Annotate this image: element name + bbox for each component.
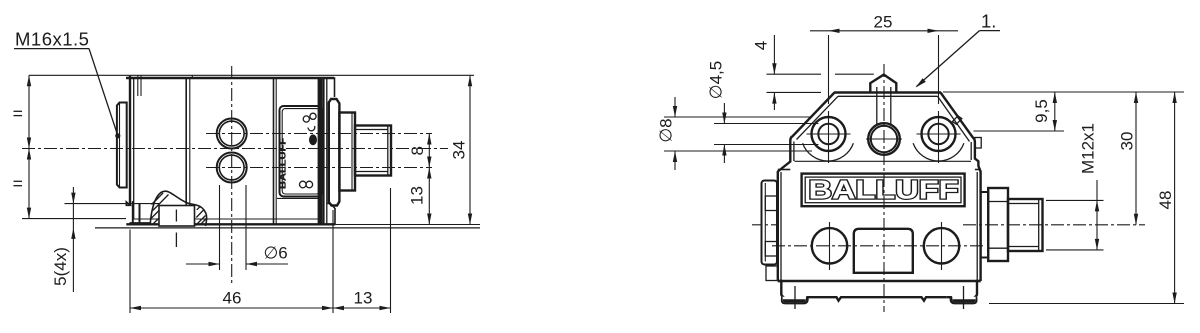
svg-text:M16x1.5: M16x1.5 <box>15 29 89 50</box>
lower-right circle crosshair vertical <box>941 222 943 270</box>
25 dimension line <box>810 30 958 32</box>
top-left circle hole <box>818 124 838 144</box>
svg-text:BALLUFF: BALLUFF <box>277 138 287 189</box>
top-left corner step lines <box>137 75 139 96</box>
lower circles center line <box>772 245 986 247</box>
lower-right mounting circle <box>924 228 959 263</box>
svg-text:∅8: ∅8 <box>657 118 676 142</box>
13 dimension line right <box>428 168 430 225</box>
house right wall inner <box>970 142 972 160</box>
roof inner chamfer left <box>797 96 839 139</box>
equal mark lower <box>14 180 23 182</box>
internal seam 1 <box>185 79 187 224</box>
LED twin circles bottom <box>300 181 307 188</box>
1. leader arrow <box>916 78 926 87</box>
flange plate <box>329 99 340 206</box>
4 reference lines <box>767 73 822 75</box>
top-right extension line <box>943 91 1184 93</box>
bottom right cap <box>327 204 335 225</box>
25 extension lines <box>828 35 830 104</box>
foot slot center dash <box>175 210 177 222</box>
svg-text:∅4,5: ∅4,5 <box>707 61 726 99</box>
step line right <box>975 169 981 171</box>
body right edge <box>979 171 981 281</box>
label box inner <box>282 109 319 194</box>
5(4x) dimension line <box>72 187 74 292</box>
diameter 8 dimension line <box>674 97 676 117</box>
M16 leader <box>89 49 118 135</box>
9,5 dimension line <box>1054 92 1056 131</box>
lower-left circle crosshair vertical <box>829 222 831 270</box>
potentiometer filled oval <box>309 134 317 145</box>
nub slot lines <box>876 87 878 124</box>
top right cap <box>327 78 335 97</box>
main horizontal center line <box>22 148 448 150</box>
body right edge double <box>322 78 324 224</box>
LED twin circles top <box>303 116 309 122</box>
13 arrows bottom <box>333 306 344 310</box>
1. underline <box>980 30 1001 32</box>
left flange plate <box>762 181 778 265</box>
bottom-left extension line <box>22 218 126 220</box>
arc around top-right circle <box>913 143 964 161</box>
label box bottom double line <box>277 197 322 199</box>
center notch <box>854 229 913 273</box>
equal mark upper <box>14 110 23 112</box>
body bottom inner line <box>134 218 319 220</box>
house right wall <box>973 138 980 172</box>
foot white slot <box>159 206 195 227</box>
base bottom middle <box>812 297 947 301</box>
svg-text:8: 8 <box>408 146 427 155</box>
house left wall inner <box>793 142 795 162</box>
top-left circle (counterbore) <box>812 117 846 151</box>
M16 underline <box>14 48 89 50</box>
hole circle upper <box>217 119 247 149</box>
diameter 4,5 reference lines <box>714 123 819 125</box>
plate front face line <box>119 103 121 188</box>
svg-text:9,5: 9,5 <box>1032 99 1051 123</box>
top-right circle hole <box>928 124 948 144</box>
plug barrel <box>1008 199 1043 251</box>
upper hole center line <box>206 133 432 135</box>
plug center line left tick <box>752 224 776 226</box>
roof inner chamfer right <box>938 96 970 141</box>
plug barrel end lines <box>1008 203 1039 205</box>
diameter 8 reference lines <box>664 116 812 118</box>
internal shelf line <box>795 160 972 162</box>
hatch lines left crescent <box>151 211 159 219</box>
8 dimension line <box>428 134 430 168</box>
lower-left mounting circle <box>812 228 847 263</box>
diameter 6 dimension line <box>186 263 220 265</box>
svg-text:1.: 1. <box>981 11 996 32</box>
body bottom edge <box>126 223 335 225</box>
body left edge <box>129 76 131 206</box>
left foot chamfer <box>126 202 130 206</box>
hatch dome outline <box>150 191 206 226</box>
hex nut side view <box>339 113 355 191</box>
lower hole center line <box>206 167 432 169</box>
plug end face lines <box>355 129 388 131</box>
plug hex <box>988 188 1008 261</box>
M16 leader dot <box>115 133 120 138</box>
left foot bottom pad <box>130 222 151 224</box>
bottom extension line <box>989 303 1184 305</box>
9,5 reference line <box>974 130 1065 132</box>
diameter 6 extension lines <box>219 185 221 270</box>
roof right chamfer <box>941 93 974 139</box>
label box outer <box>280 106 322 197</box>
BALLUFF logo box outer <box>802 174 965 207</box>
top nub <box>870 75 896 93</box>
ground line <box>95 227 480 229</box>
vertical center line <box>883 64 885 312</box>
house left wall <box>778 137 792 172</box>
left flange inner line <box>764 183 766 262</box>
plug hex flats <box>988 201 1008 203</box>
left foot verticals <box>132 201 134 224</box>
roof tick mark <box>953 116 962 125</box>
vertical center line of holes <box>231 66 233 286</box>
body left inner edge <box>133 78 135 219</box>
base outline right <box>947 281 981 303</box>
diameter 4,5 dimension line <box>723 103 725 124</box>
base foot dash left <box>794 286 796 309</box>
base right pad dark bottom <box>952 297 977 303</box>
body bottom edge <box>778 280 981 282</box>
svg-text:48: 48 <box>1156 191 1175 210</box>
top seam ticks <box>191 75 193 79</box>
body left edge <box>777 171 779 281</box>
svg-text:5(4x): 5(4x) <box>51 247 70 286</box>
base foot dash right <box>963 286 965 309</box>
46 dimension line <box>130 307 391 309</box>
48 dimension line <box>1174 92 1176 304</box>
hole circle lower <box>217 153 247 183</box>
right section edge double <box>318 79 323 224</box>
svg-text:13: 13 <box>408 186 427 205</box>
left foot step line <box>65 203 160 205</box>
body top edge <box>126 77 334 79</box>
svg-text:4: 4 <box>752 41 771 50</box>
roof inner ridge <box>838 95 938 97</box>
equal-spacing dimension line <box>28 75 30 218</box>
svg-text:13: 13 <box>354 289 373 308</box>
center circle crosshair <box>866 138 902 140</box>
hatch lines right lobe <box>196 216 206 226</box>
plug barrel M12 <box>355 126 391 176</box>
right wall tab <box>975 138 981 149</box>
roof left chamfer <box>792 93 835 138</box>
BALLUFF logo box inner <box>805 177 961 203</box>
34 dimension line <box>469 75 471 224</box>
body right edge inner <box>976 172 978 280</box>
center sensing circle inner <box>871 126 897 152</box>
svg-text:34: 34 <box>450 141 469 160</box>
svg-text:30: 30 <box>1118 132 1137 151</box>
svg-text:∅6: ∅6 <box>264 244 288 263</box>
svg-text:25: 25 <box>874 12 893 31</box>
body left edge inner <box>780 172 782 280</box>
top-left circle crosshair <box>807 133 851 135</box>
1. leader <box>917 31 980 87</box>
center sensing circle outer <box>868 123 900 155</box>
svg-text:46: 46 <box>223 289 242 308</box>
4 dimension line <box>773 35 775 74</box>
arc around top-left circle <box>803 143 854 161</box>
base outline left <box>778 281 812 303</box>
M12x1 dimension line <box>1096 180 1098 250</box>
30 dimension line <box>1135 92 1137 225</box>
top-right circle (counterbore) <box>922 117 956 151</box>
roof ridge <box>834 91 941 93</box>
M12 reference lines <box>1046 199 1104 201</box>
left flange slot upper <box>765 196 777 211</box>
svg-text:M12x1: M12x1 <box>1079 123 1098 174</box>
sensing face plate (M16) <box>117 103 127 188</box>
plug center line <box>963 224 1145 226</box>
internal seam 2 <box>273 79 275 224</box>
base left pad dark bottom <box>782 297 807 303</box>
left lower tab <box>766 266 778 281</box>
plug neck <box>981 192 989 258</box>
top extension line <box>29 74 474 76</box>
46 extension lines <box>129 230 131 314</box>
top-right circle crosshair <box>917 133 961 135</box>
foot slot center dash below <box>175 233 177 248</box>
step line left <box>778 169 791 171</box>
left flange slot lower <box>765 242 777 257</box>
bottom body-line extension to right <box>335 224 480 226</box>
